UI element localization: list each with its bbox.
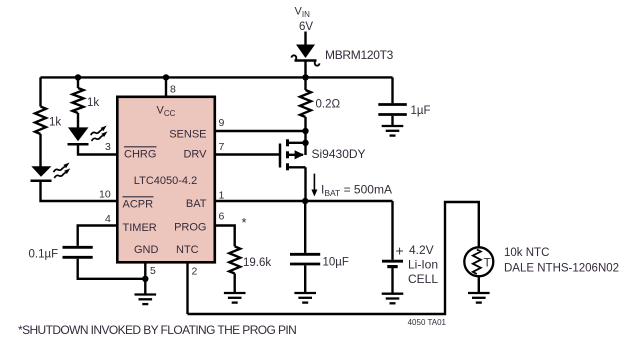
wire thermistor to ground xyxy=(478,276,480,293)
svg-text:10: 10 xyxy=(99,189,111,201)
svg-text:MBRM120T3: MBRM120T3 xyxy=(325,48,394,62)
svg-text:T: T xyxy=(484,256,492,270)
svg-text:1k: 1k xyxy=(87,97,99,109)
svg-text:LTC4050-4.2: LTC4050-4.2 xyxy=(134,175,197,187)
wire top rail xyxy=(41,76,393,78)
svg-text:4.2V: 4.2V xyxy=(409,243,434,257)
svg-text:7: 7 xyxy=(219,141,225,153)
capacitor C2 10uF xyxy=(290,201,320,293)
junction dot (BAT node) xyxy=(302,198,308,204)
svg-text:8: 8 xyxy=(170,84,176,96)
resistor R3 0.2 ohm xyxy=(300,77,311,131)
wire DRV pin 7 to gate xyxy=(215,153,280,155)
wire NTC pin 2 down xyxy=(186,263,188,315)
svg-text:DALE NTHS-1206N02: DALE NTHS-1206N02 xyxy=(504,263,619,275)
ground (10uF) xyxy=(294,293,316,303)
svg-text:*SHUTDOWN INVOKED BY FLOATING: *SHUTDOWN INVOKED BY FLOATING THE PROG P… xyxy=(18,323,296,337)
wire LED D3 to CHRG pin 3 xyxy=(78,145,117,155)
battery BT1 Li-Ion cell xyxy=(382,201,403,294)
node IBAT current arrow xyxy=(311,174,317,197)
svg-text:2: 2 xyxy=(192,266,198,278)
svg-text:0.1µF: 0.1µF xyxy=(29,249,59,261)
wire top rail to 1uF xyxy=(391,77,393,103)
wire pin 8 to rail xyxy=(165,77,167,96)
svg-text:CELL: CELL xyxy=(408,272,438,286)
svg-text:10µF: 10µF xyxy=(323,257,349,269)
capacitor C3 1uF xyxy=(378,105,407,127)
ground (thermistor) xyxy=(468,293,490,303)
svg-text:Si9430DY: Si9430DY xyxy=(312,147,366,161)
transistor Q1 Si9430DY (P-MOSFET) xyxy=(280,139,306,201)
diode D1 MBRM120T3 (Schottky) xyxy=(292,45,320,66)
svg-text:DRV: DRV xyxy=(183,149,207,161)
svg-text:+: + xyxy=(396,243,404,259)
wire SENSE pin 9 xyxy=(215,130,306,132)
junction dot (sense node) xyxy=(302,128,308,134)
svg-text:4: 4 xyxy=(105,213,111,225)
svg-text:4050 TA01: 4050 TA01 xyxy=(408,318,447,327)
junction dot (rail / diode / 0.2ohm) xyxy=(302,74,308,80)
LED D2 (left) xyxy=(31,163,71,181)
junction dot (rail / R2) xyxy=(75,74,81,80)
ground (pin 5) xyxy=(135,295,157,305)
ground (19.6k) xyxy=(224,293,246,303)
svg-text:1: 1 xyxy=(219,190,225,202)
svg-text:Li-Ion: Li-Ion xyxy=(408,258,438,272)
wire GND pin 5 down xyxy=(144,263,146,295)
svg-text:ACPR: ACPR xyxy=(123,199,154,211)
wire LED D2 to ACPR pin 10 xyxy=(41,182,118,202)
svg-text:6V: 6V xyxy=(299,21,313,33)
svg-text:5: 5 xyxy=(150,265,156,277)
resistor R2 1k (second) xyxy=(73,77,84,128)
ground (1uF) xyxy=(382,126,404,136)
node VIN label xyxy=(295,6,314,34)
wire sense node to mosfet source/body xyxy=(304,131,306,155)
wire 0.1uF to GND pin 5 node xyxy=(78,259,146,279)
svg-text:NTC: NTC xyxy=(176,244,199,256)
svg-text:3: 3 xyxy=(105,141,111,153)
junction dot (pin 5 / 0.1uF) xyxy=(142,276,148,282)
thermistor RT1 10k NTC xyxy=(464,247,493,276)
svg-text:0.2Ω: 0.2Ω xyxy=(316,99,341,111)
junction dot (rail / pin 8) xyxy=(163,74,169,80)
svg-text:TIMER: TIMER xyxy=(123,222,157,234)
resistor R4 19.6k xyxy=(229,246,240,293)
label 4.2V Li-Ion CELL xyxy=(408,243,438,286)
ground (battery) xyxy=(382,294,404,304)
svg-text:CHRG: CHRG xyxy=(124,149,156,161)
junction dot (source tee) xyxy=(302,140,308,146)
wire diode to top rail xyxy=(304,62,306,78)
wire PROG pin 6 to 19.6k xyxy=(215,226,235,247)
op IC U1 LTC4050-4.2 body xyxy=(117,97,215,262)
wire TIMER pin 4 to 0.1uF xyxy=(78,226,117,246)
svg-text:1µF: 1µF xyxy=(411,105,431,117)
svg-text:BAT: BAT xyxy=(186,198,207,210)
svg-text:19.6k: 19.6k xyxy=(243,257,271,269)
capacitor C1 0.1uF xyxy=(63,247,93,257)
svg-text:9: 9 xyxy=(219,117,225,129)
svg-text:1k: 1k xyxy=(49,117,61,129)
svg-text:SENSE: SENSE xyxy=(169,129,206,141)
svg-text:*: * xyxy=(242,215,247,230)
wire VIN to diode xyxy=(304,32,306,46)
svg-text:10k NTC: 10k NTC xyxy=(504,247,549,259)
svg-text:6: 6 xyxy=(219,211,225,223)
wire NTC bottom rail to thermistor xyxy=(188,202,479,314)
svg-text:GND: GND xyxy=(134,244,159,256)
svg-text:PROG: PROG xyxy=(174,222,206,234)
LED D3 (second) xyxy=(68,126,108,145)
resistor R1 1k (left) xyxy=(35,77,46,167)
wire BAT pin 1 rail xyxy=(215,200,393,202)
